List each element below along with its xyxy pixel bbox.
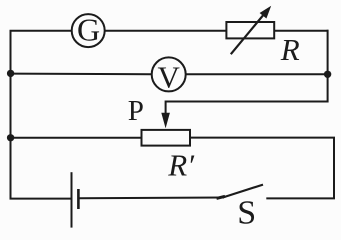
wire: top row, right segment <box>274 30 328 32</box>
galvanometer G <box>72 11 105 47</box>
battery cell <box>72 172 79 227</box>
svg-text:S: S <box>237 194 256 231</box>
potentiometer R' body <box>142 130 191 146</box>
wire: bottom row, left segment <box>10 198 72 200</box>
svg-text:V: V <box>158 59 181 94</box>
wire: right vertical lower <box>333 138 335 199</box>
svg-text:R: R <box>280 32 300 67</box>
wire: bottom row, right segment <box>266 197 335 199</box>
wire: left vertical <box>10 31 12 199</box>
rheostat R (variable resistor body) <box>226 22 274 38</box>
svg-text:R′: R′ <box>167 147 195 182</box>
wire: bottom row, middle segment <box>79 197 224 200</box>
wire: voltmeter row, right segment <box>186 73 328 75</box>
node: left junction lower <box>7 134 14 141</box>
node: right junction <box>324 71 331 78</box>
switch S <box>217 185 264 199</box>
svg-text:G: G <box>77 11 100 47</box>
node: left junction upper <box>7 70 14 77</box>
rheostat R arrow <box>231 6 271 55</box>
wire: top row, left segment <box>10 30 72 32</box>
wire: wiper connection (elbow to right vertical) <box>166 101 328 103</box>
wire: top row, middle segment <box>105 30 227 32</box>
wiper arrow P (slider onto R') <box>161 101 170 129</box>
wire: potentiometer row, left segment <box>11 137 142 139</box>
svg-text:P: P <box>128 95 144 127</box>
voltmeter V <box>152 57 186 94</box>
wire: voltmeter row, left segment <box>11 73 152 76</box>
wire: right vertical upper <box>327 30 329 103</box>
wire: potentiometer row, right segment <box>190 137 335 139</box>
